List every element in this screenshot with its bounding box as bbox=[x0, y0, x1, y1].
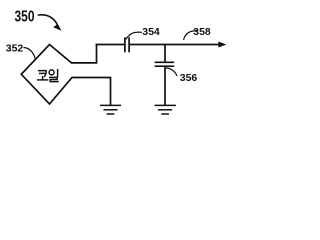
label 358 bbox=[193, 26, 211, 38]
svg-text:354: 354 bbox=[142, 26, 160, 38]
leader line 356 bbox=[166, 68, 177, 76]
svg-text:358: 358 bbox=[193, 26, 211, 38]
ground GND2 (below C356) bbox=[155, 105, 175, 114]
leader line 358 bbox=[184, 31, 197, 40]
label 352 bbox=[6, 43, 24, 55]
wire: top rail right segment with junction bbox=[130, 44, 219, 46]
arrowhead (output 358) bbox=[218, 42, 226, 48]
svg-text:356: 356 bbox=[180, 72, 198, 84]
figure label 350 bbox=[14, 7, 34, 25]
coil value label 코일 (Hangul drawn as strokes) bbox=[38, 70, 58, 82]
wire: junction down to C356 bbox=[164, 45, 166, 62]
svg-text:352: 352 bbox=[6, 43, 24, 55]
leader line 352 bbox=[24, 48, 36, 60]
wire: C356 down to ground bbox=[164, 67, 166, 105]
ground GND1 (below coil) bbox=[101, 105, 121, 114]
coil L1 (box labeled 코일) bbox=[21, 45, 110, 105]
wire: top rail left segment bbox=[97, 44, 125, 46]
svg-text:350: 350 bbox=[14, 7, 34, 25]
leader line 354 bbox=[126, 32, 141, 39]
capacitor C354 (series) bbox=[125, 38, 129, 51]
label 356 bbox=[180, 72, 198, 84]
capacitor C356 (shunt) bbox=[155, 62, 173, 66]
label 354 bbox=[142, 26, 160, 38]
leader arrow for 350 bbox=[39, 15, 62, 31]
